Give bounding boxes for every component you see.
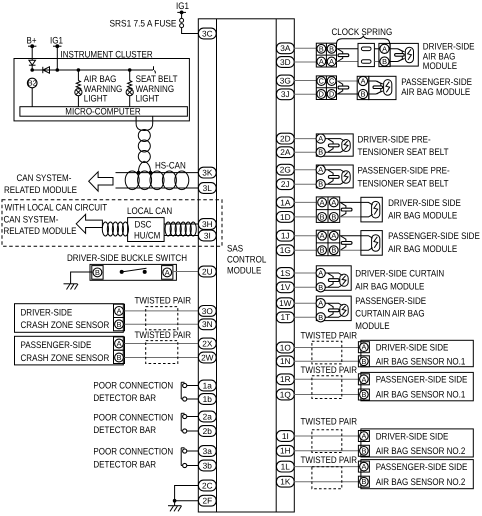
squib (passenger air bag module) xyxy=(384,80,392,96)
label air bag warning light xyxy=(84,74,123,104)
shorting clip (passenger air bag conn) xyxy=(338,81,349,94)
connector 3H xyxy=(198,219,216,230)
DSC HU/CM box xyxy=(128,218,165,242)
wire 1I to sensor xyxy=(294,435,359,437)
svg-text:3K: 3K xyxy=(202,168,213,178)
svg-text:1Q: 1Q xyxy=(280,389,292,399)
svg-text:TENSIONER SEAT BELT: TENSIONER SEAT BELT xyxy=(358,178,449,189)
label driver-side pre-tensioner xyxy=(358,134,449,158)
wire bar1 to 1b xyxy=(187,398,199,400)
svg-text:B: B xyxy=(331,212,336,221)
label seat belt warning light xyxy=(136,74,178,104)
svg-text:B: B xyxy=(361,446,366,455)
connector 3D xyxy=(276,57,294,68)
svg-text:3A: 3A xyxy=(280,43,291,53)
wire pair to clock spring (top) xyxy=(337,48,359,50)
svg-text:3H: 3H xyxy=(202,219,213,229)
passenger-side side air bag sensor no.2 box xyxy=(361,460,473,489)
svg-text:2X: 2X xyxy=(202,338,213,348)
passenger-side crash zone sensor box xyxy=(15,336,124,365)
svg-text:A: A xyxy=(318,134,323,143)
wire pair to clock spring (bottom) xyxy=(337,61,359,63)
shorting clip (driver clock spring) xyxy=(338,49,349,62)
seat belt warning light lamp xyxy=(126,70,133,107)
svg-text:2C: 2C xyxy=(202,480,213,490)
svg-text:1J: 1J xyxy=(281,231,290,241)
svg-text:1K: 1K xyxy=(280,477,291,487)
svg-text:SAS: SAS xyxy=(227,244,243,255)
twisted pair vertical (HS-CAN from cluster) xyxy=(136,116,153,172)
pin A (driver crash sensor) xyxy=(114,304,125,317)
connector 1T xyxy=(276,312,294,323)
SAS control module body xyxy=(198,19,294,512)
wire bar2 to 2a xyxy=(187,416,199,418)
svg-text:CAN SYSTEM-: CAN SYSTEM- xyxy=(17,173,72,184)
wire 2D to pre-tensioner xyxy=(294,138,316,140)
wire bar1 to 1a xyxy=(187,385,199,387)
driver-side buckle switch box xyxy=(90,264,176,280)
svg-text:MODULE: MODULE xyxy=(423,61,457,72)
wire crash A to 3O xyxy=(125,310,199,312)
twisted pair dashed box (sensor no.1 passenger) xyxy=(312,376,342,399)
wire 1J to side air bag connector xyxy=(294,235,316,237)
svg-text:A: A xyxy=(117,306,122,315)
svg-text:3b: 3b xyxy=(203,460,213,470)
wire 1Q to sensor xyxy=(294,394,359,396)
svg-text:IG1: IG1 xyxy=(176,1,189,12)
connector 2U xyxy=(198,266,216,277)
shorting clip (driver side air bag) xyxy=(341,203,352,217)
wire 2C to ground xyxy=(175,486,199,506)
svg-text:POOR CONNECTION: POOR CONNECTION xyxy=(93,447,173,458)
svg-text:B: B xyxy=(319,44,324,53)
label passenger-side curtain air bag module xyxy=(355,296,426,332)
svg-text:CAN SYSTEM-: CAN SYSTEM- xyxy=(4,215,59,226)
node B+ xyxy=(27,36,37,49)
connector 2D xyxy=(276,133,294,144)
driver-side side air bag module box xyxy=(361,197,382,222)
svg-text:D: D xyxy=(329,90,334,99)
label passenger-side side air bag module xyxy=(388,231,480,255)
poor connection detector bar 1 xyxy=(181,382,187,401)
connector 1W xyxy=(276,298,294,309)
label POOR CONNECTION DETECTOR BAR 3 xyxy=(93,447,173,471)
micro-computer box xyxy=(20,107,188,118)
svg-text:A: A xyxy=(361,432,366,441)
wire 1D to side air bag connector xyxy=(294,216,316,218)
label driver-side air bag module xyxy=(423,41,475,71)
connector 1A xyxy=(276,197,294,208)
svg-text:1b: 1b xyxy=(203,394,213,404)
label CAN SYSTEM-RELATED MODULE xyxy=(4,173,77,196)
connector pair box (driver clock spring) xyxy=(316,43,336,67)
svg-text:DRIVER-SIDE SIDE: DRIVER-SIDE SIDE xyxy=(388,198,461,209)
passenger-side curtain air bag module box xyxy=(316,296,351,321)
label passenger-side pre-tensioner xyxy=(358,165,450,189)
svg-text:CONTROL: CONTROL xyxy=(227,255,266,266)
wire crash B to 2W xyxy=(125,357,199,359)
label POOR CONNECTION DETECTOR BAR 2 xyxy=(93,412,173,436)
wire IG1 down into cluster xyxy=(56,46,58,70)
junction dot 2F xyxy=(173,499,177,503)
driver-side curtain air bag module box xyxy=(316,266,351,291)
svg-text:LIGHT: LIGHT xyxy=(136,94,160,105)
svg-text:3I: 3I xyxy=(204,230,211,240)
wire DSC to 3H xyxy=(164,223,198,225)
coil local CAN left xyxy=(102,222,128,236)
svg-text:AIR BAG SENSOR NO.2: AIR BAG SENSOR NO.2 xyxy=(376,477,466,488)
wire fuse to 3C xyxy=(182,28,199,34)
connector 2b xyxy=(198,426,216,437)
diode D1 (B+ vertical) xyxy=(29,60,36,65)
label driver-side side air bag sensor no.2 xyxy=(376,431,466,457)
connector 3N xyxy=(198,319,216,330)
connector B2 xyxy=(27,78,37,88)
svg-text:A: A xyxy=(361,375,366,384)
svg-text:TWISTED PAIR: TWISTED PAIR xyxy=(135,296,192,307)
svg-text:WITH LOCAL CAN CIRCUIT: WITH LOCAL CAN CIRCUIT xyxy=(5,203,108,214)
switch contact xyxy=(120,268,147,274)
svg-text:3D: 3D xyxy=(280,57,291,67)
label driver-side side air bag module xyxy=(388,198,461,222)
connector 1b xyxy=(198,394,216,405)
squib (driver side air bag) xyxy=(372,201,380,218)
wire 3G to connector xyxy=(294,80,316,82)
svg-text:DRIVER-SIDE CURTAIN: DRIVER-SIDE CURTAIN xyxy=(355,268,444,279)
connector pair box (passenger air bag) xyxy=(316,76,336,100)
wire 1R to sensor xyxy=(294,378,359,380)
wire buckle A to 2U xyxy=(173,271,198,273)
pin A (passenger crash sensor) xyxy=(114,337,125,350)
connector 2a xyxy=(198,411,216,422)
connector 2J xyxy=(276,179,294,190)
connector 3b xyxy=(198,460,216,471)
svg-text:B: B xyxy=(320,246,325,255)
pin B (driver curtain) xyxy=(316,283,325,292)
driver-side air bag module box xyxy=(390,43,418,66)
brace (clock spring) xyxy=(336,36,389,45)
wire bar3 to 3a xyxy=(187,450,199,452)
svg-text:1G: 1G xyxy=(280,245,291,255)
wire connector to passenger module (bottom) xyxy=(337,93,359,95)
svg-text:CRASH ZONE SENSOR: CRASH ZONE SENSOR xyxy=(21,320,110,331)
svg-text:A: A xyxy=(329,57,334,66)
svg-text:2D: 2D xyxy=(280,134,291,144)
connector 2W xyxy=(198,352,216,363)
svg-text:A: A xyxy=(361,77,366,86)
svg-text:B: B xyxy=(331,246,336,255)
internal wiring + clip (passenger curtain) xyxy=(325,303,342,317)
passenger-side side air bag module box xyxy=(361,231,382,256)
squib (driver curtain) xyxy=(340,274,348,286)
connector 1I xyxy=(276,431,294,442)
pin B (sensor no.1 passenger) xyxy=(358,389,369,400)
wire 1V to curtain module xyxy=(294,286,316,288)
svg-text:DETECTOR BAR: DETECTOR BAR xyxy=(93,425,156,436)
pin B (driver crash sensor) xyxy=(114,318,125,331)
svg-text:AIR BAG MODULE: AIR BAG MODULE xyxy=(355,281,424,292)
wire 1N to sensor xyxy=(294,360,359,362)
svg-text:A: A xyxy=(361,343,366,352)
svg-text:TWISTED PAIR: TWISTED PAIR xyxy=(135,330,192,341)
pin A (sensor no.1 passenger) xyxy=(358,374,369,385)
driver-side pre-tensioner box xyxy=(316,134,353,156)
svg-text:2U: 2U xyxy=(202,266,213,276)
svg-text:1V: 1V xyxy=(280,282,291,292)
squib (driver air bag module) xyxy=(405,47,413,63)
wire 2G to pre-tensioner xyxy=(294,169,316,171)
diode D2 (bus horizontal) xyxy=(43,67,50,73)
label CAN SYSTEM-RELATED MODULE (local) xyxy=(4,215,77,238)
svg-text:A: A xyxy=(331,231,336,240)
pin A (sensor no.2 passenger) xyxy=(358,461,369,472)
svg-text:HS-CAN: HS-CAN xyxy=(155,161,186,172)
svg-text:POOR CONNECTION: POOR CONNECTION xyxy=(93,381,173,392)
svg-text:DRIVER-SIDE: DRIVER-SIDE xyxy=(21,307,73,318)
driver-side side air bag sensor no.2 box xyxy=(361,429,473,457)
wire crash B to 3N xyxy=(125,323,199,325)
connector 3C xyxy=(198,28,216,39)
pin B (sensor no.2 driver) xyxy=(358,445,369,456)
connector 3a xyxy=(198,446,216,457)
svg-text:B: B xyxy=(318,180,323,189)
arrow to CAN system-related module xyxy=(89,172,113,191)
svg-text:PASSENGER-SIDE SIDE: PASSENGER-SIDE SIDE xyxy=(388,231,480,242)
svg-text:AIR BAG SENSOR NO.1: AIR BAG SENSOR NO.1 xyxy=(376,390,466,401)
svg-text:2G: 2G xyxy=(280,165,291,175)
svg-text:RELATED MODULE: RELATED MODULE xyxy=(4,185,77,196)
svg-text:1a: 1a xyxy=(203,380,213,390)
label driver-side side air bag sensor no.1 xyxy=(376,343,466,368)
connector 2X xyxy=(198,338,216,349)
wire DSC to 3I xyxy=(164,235,198,237)
pin B (passenger pre-tensioner) xyxy=(316,180,325,189)
svg-text:C: C xyxy=(329,77,334,86)
svg-text:1N: 1N xyxy=(280,356,291,366)
pin B (driver pre-tensioner) xyxy=(316,148,325,157)
svg-text:CRASH ZONE SENSOR: CRASH ZONE SENSOR xyxy=(21,353,110,364)
svg-text:1W: 1W xyxy=(279,298,292,308)
svg-text:B: B xyxy=(361,390,366,399)
svg-text:B: B xyxy=(320,212,325,221)
svg-text:DRIVER-SIDE PRE-: DRIVER-SIDE PRE- xyxy=(358,134,431,145)
twisted pair dashed box (sensor no.2 driver) xyxy=(312,430,342,453)
junction dots on HS-CAN xyxy=(137,171,153,175)
wire 3A to clock spring connector xyxy=(294,47,316,49)
squib (passenger side air bag) xyxy=(372,235,380,252)
shorting clip (passenger side air bag) xyxy=(341,236,352,250)
connector 3O xyxy=(198,306,216,317)
connector 1S xyxy=(276,268,294,279)
svg-text:B: B xyxy=(361,477,366,486)
connector 2G xyxy=(276,164,294,175)
connector 1G xyxy=(276,245,294,256)
passenger-side side air bag sensor no.1 box xyxy=(361,372,473,400)
pin circles (driver air bag module) xyxy=(379,43,390,66)
pin A (buckle switch) xyxy=(162,266,173,280)
svg-text:D: D xyxy=(319,90,324,99)
svg-text:B: B xyxy=(95,268,100,277)
svg-text:DRIVER-SIDE SIDE: DRIVER-SIDE SIDE xyxy=(376,343,449,354)
svg-text:A: A xyxy=(320,231,325,240)
SAS CONTROL MODULE label xyxy=(227,244,266,277)
wire 1K to sensor xyxy=(294,481,359,483)
pin B (sensor no.2 passenger) xyxy=(358,476,369,487)
poor connection detector bar 2 xyxy=(181,413,187,433)
connector 2F xyxy=(198,495,216,506)
svg-text:A: A xyxy=(319,57,324,66)
pin B (passenger crash sensor) xyxy=(114,350,125,363)
svg-text:3L: 3L xyxy=(203,183,213,193)
svg-text:2b: 2b xyxy=(203,426,213,436)
driver-side crash zone sensor box xyxy=(15,304,124,333)
connector 1O xyxy=(276,342,294,353)
svg-text:3J: 3J xyxy=(281,89,290,99)
svg-text:C: C xyxy=(319,77,324,86)
air bag warning light lamp xyxy=(75,70,82,107)
connector 3G xyxy=(276,75,294,86)
svg-text:TWISTED PAIR: TWISTED PAIR xyxy=(301,365,358,376)
squib (passenger curtain) xyxy=(340,304,348,316)
svg-text:TWISTED PAIR: TWISTED PAIR xyxy=(301,455,358,466)
node IG1 (top) xyxy=(176,1,189,14)
svg-text:B2: B2 xyxy=(28,78,37,87)
pin B (buckle switch) xyxy=(92,266,103,280)
svg-text:POOR CONNECTION: POOR CONNECTION xyxy=(93,412,173,423)
connector 2A xyxy=(276,147,294,158)
svg-text:B: B xyxy=(117,353,122,362)
wire clock spring to module pins xyxy=(374,48,380,50)
twisted pair dashed box (sensor no.2 passenger) xyxy=(312,467,342,489)
twisted pair dashed box (sensor no.1 driver) xyxy=(312,341,342,364)
wire B2 to micro-computer xyxy=(31,88,33,107)
connector 1K xyxy=(276,476,294,487)
svg-text:PASSENGER-SIDE PRE-: PASSENGER-SIDE PRE- xyxy=(358,165,450,176)
wire to 3K xyxy=(116,172,199,174)
svg-text:3N: 3N xyxy=(202,319,213,329)
wire connector to module (passenger side air bag) xyxy=(340,236,361,251)
dashed box: with local CAN circuit xyxy=(2,200,222,247)
svg-text:A: A xyxy=(331,198,336,207)
wire 1A to side air bag connector xyxy=(294,201,316,203)
fuse SRS1 7.5 A xyxy=(110,18,184,29)
twisted pair dashed box (crash 1) xyxy=(146,307,178,330)
label passenger-side side air bag sensor no.1 xyxy=(376,375,468,401)
pin circles (passenger air bag module) xyxy=(357,76,369,99)
svg-text:3C: 3C xyxy=(202,28,213,38)
wire diode to bus xyxy=(31,65,33,70)
connector 3K xyxy=(198,167,216,178)
connector pair box (driver side air bag) xyxy=(316,197,339,223)
svg-text:1A: 1A xyxy=(280,197,291,207)
svg-text:2A: 2A xyxy=(280,147,291,157)
svg-text:3a: 3a xyxy=(203,446,213,456)
poor connection detector bar 3 xyxy=(181,448,187,468)
svg-text:2W: 2W xyxy=(201,352,214,362)
wire connector to passenger module (top) xyxy=(337,80,359,82)
svg-text:3O: 3O xyxy=(202,306,214,316)
connector 1a xyxy=(198,380,216,391)
svg-text:AIR BAG MODULE: AIR BAG MODULE xyxy=(388,211,457,222)
ground (buckle switch) xyxy=(64,284,79,290)
internal wiring + clip (driver pre-tensioner) xyxy=(325,139,344,153)
wire 1T to curtain module xyxy=(294,316,316,318)
wire cluster bus xyxy=(30,66,155,73)
connector 1D xyxy=(276,212,294,223)
svg-text:2J: 2J xyxy=(281,179,290,189)
svg-text:PASSENGER-SIDE SIDE: PASSENGER-SIDE SIDE xyxy=(376,462,468,473)
clock spring box xyxy=(358,43,374,66)
wire crash A to 2X xyxy=(125,343,199,345)
svg-text:CURTAIN AIR BAG: CURTAIN AIR BAG xyxy=(355,308,424,319)
internal wiring + clip (driver curtain) xyxy=(325,273,342,287)
svg-text:2a: 2a xyxy=(203,411,213,421)
wire to 3L xyxy=(116,187,199,189)
connector 1J xyxy=(276,230,294,241)
svg-text:A: A xyxy=(165,268,170,277)
svg-text:1H: 1H xyxy=(280,446,291,456)
internal wiring + clip (passenger pre-tensioner) xyxy=(325,170,344,185)
wire 1S to curtain module xyxy=(294,272,316,274)
svg-text:1I: 1I xyxy=(282,431,289,441)
svg-text:LOCAL CAN: LOCAL CAN xyxy=(127,206,172,217)
svg-text:B: B xyxy=(318,313,323,322)
pin B (sensor no.1 driver) xyxy=(358,356,369,367)
svg-text:PASSENGER-SIDE: PASSENGER-SIDE xyxy=(21,340,92,351)
svg-text:1O: 1O xyxy=(280,342,292,352)
wire 1L to sensor xyxy=(294,466,359,468)
svg-text:RELATED MODULE: RELATED MODULE xyxy=(4,226,77,237)
instrument cluster box xyxy=(14,50,189,121)
wire 2J to pre-tensioner xyxy=(294,183,316,185)
wire bar2 to 2b xyxy=(187,430,199,432)
svg-text:1R: 1R xyxy=(280,374,291,384)
svg-text:B: B xyxy=(361,357,366,366)
connector 3A xyxy=(276,43,294,54)
wire 3D to clock spring connector xyxy=(294,61,316,63)
svg-text:TWISTED PAIR: TWISTED PAIR xyxy=(301,416,358,427)
label passenger-side side air bag sensor no.2 xyxy=(376,462,468,488)
label driver-side curtain air bag module xyxy=(355,268,444,292)
connector 1R xyxy=(276,374,294,385)
svg-text:A: A xyxy=(117,339,122,348)
twisted pair horizontal HS-CAN xyxy=(125,171,189,190)
ground (2C/2F) xyxy=(168,506,182,512)
svg-text:DETECTOR BAR: DETECTOR BAR xyxy=(93,393,156,404)
svg-text:AIR BAG SENSOR NO.2: AIR BAG SENSOR NO.2 xyxy=(376,446,466,457)
svg-text:MICRO-COMPUTER: MICRO-COMPUTER xyxy=(65,107,141,118)
driver-side side air bag sensor no.1 box xyxy=(361,340,473,366)
connector 3J xyxy=(276,89,294,100)
svg-text:HU/CM: HU/CM xyxy=(134,231,160,242)
svg-text:TWISTED PAIR: TWISTED PAIR xyxy=(301,331,358,342)
pin A (passenger pre-tensioner) xyxy=(316,165,325,174)
svg-text:SRS1 7.5 A FUSE: SRS1 7.5 A FUSE xyxy=(110,19,177,30)
svg-text:1D: 1D xyxy=(280,212,291,222)
pin A (driver pre-tensioner) xyxy=(316,134,325,143)
coil local CAN right xyxy=(165,222,196,236)
svg-text:PASSENGER-SIDE: PASSENGER-SIDE xyxy=(401,77,472,88)
svg-text:A: A xyxy=(318,165,323,174)
svg-text:DRIVER-SIDE BUCKLE SWITCH: DRIVER-SIDE BUCKLE SWITCH xyxy=(67,253,187,264)
svg-text:MODULE: MODULE xyxy=(227,266,261,277)
svg-text:MODULE: MODULE xyxy=(355,321,389,332)
svg-text:DRIVER-SIDE SIDE: DRIVER-SIDE SIDE xyxy=(376,431,449,442)
wire buckle B to ground xyxy=(71,272,92,284)
svg-text:TENSIONER SEAT BELT: TENSIONER SEAT BELT xyxy=(358,147,449,158)
svg-text:A: A xyxy=(318,269,323,278)
wire 1H to sensor xyxy=(294,450,359,452)
